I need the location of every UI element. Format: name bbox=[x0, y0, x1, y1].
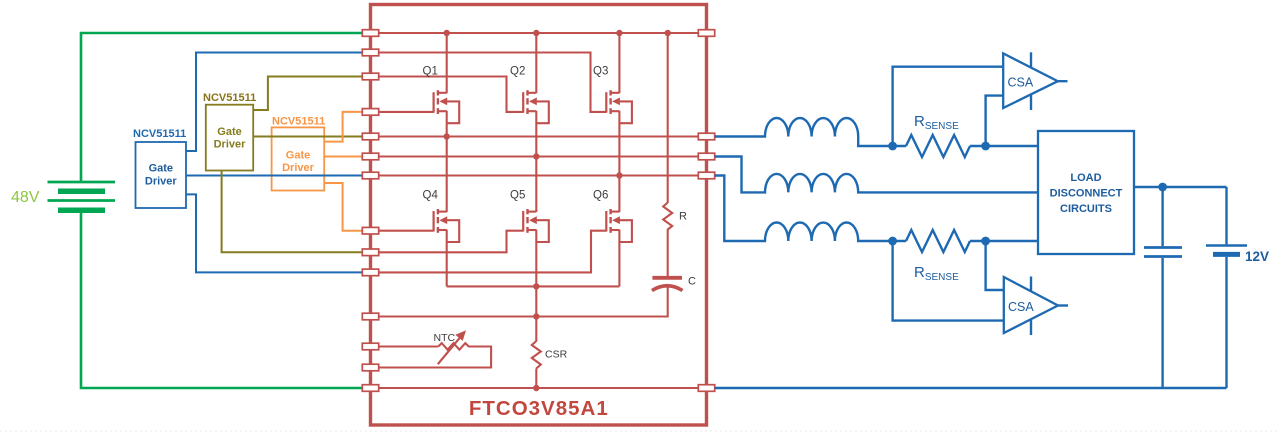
wire: internal 48V top bus bbox=[371, 32, 706, 34]
pin 5 (left) bbox=[362, 133, 378, 140]
wire: phase A rail bbox=[371, 135, 706, 137]
wire: CSA1 input - bbox=[986, 96, 1004, 146]
wire: U3 output to pin 8 (Q4 low gate) bbox=[324, 183, 362, 231]
wire: source-sense rail to snubber node (pin 11) bbox=[371, 286, 668, 317]
junction phase A node bbox=[444, 133, 450, 139]
junction output cap bbox=[1158, 183, 1167, 192]
wire: CSR to ground bus bbox=[535, 369, 537, 389]
wire: output node to capacitor C2 bbox=[1161, 187, 1163, 246]
svg-text:Q2: Q2 bbox=[510, 66, 525, 78]
wire: Q5 source to common source bus bbox=[535, 230, 537, 287]
wire+inductor L3 phase C bbox=[715, 176, 906, 242]
svg-text:LOAD: LOAD bbox=[1070, 172, 1101, 184]
load disconnect circuits box bbox=[1038, 131, 1134, 254]
pin 4 (left) bbox=[362, 109, 378, 116]
wire: R to C bbox=[667, 229, 669, 276]
module FTCO3V85A1 outline bbox=[371, 5, 707, 426]
svg-text:NCV51511: NCV51511 bbox=[203, 92, 256, 104]
wire: gate feed pin9 to Q5 bbox=[371, 231, 523, 253]
svg-text:Driver: Driver bbox=[214, 139, 247, 151]
gate driver U2 NCV51511 (olive) bbox=[203, 92, 256, 171]
wire: gate feed pin2 to Q3 bbox=[371, 53, 606, 112]
svg-text:C: C bbox=[688, 276, 696, 288]
svg-text:Gate: Gate bbox=[217, 126, 241, 138]
pin 7 (left) bbox=[362, 172, 378, 179]
pin 16 phase A (right) bbox=[698, 133, 714, 140]
battery B1 48V bbox=[48, 182, 116, 210]
pin 3 (left) bbox=[362, 73, 378, 80]
junction source bus bbox=[533, 283, 539, 289]
svg-text:NCV51511: NCV51511 bbox=[272, 116, 325, 128]
svg-text:CSA: CSA bbox=[1008, 300, 1034, 314]
wire: 48V bus to resistor R bbox=[667, 33, 669, 203]
svg-text:48V: 48V bbox=[11, 189, 40, 206]
wire+inductor L1 phase A bbox=[715, 118, 906, 146]
wire: Q6 source to common source bus bbox=[618, 230, 620, 287]
svg-text:DISCONNECT: DISCONNECT bbox=[1050, 188, 1123, 200]
junction CSR ground bbox=[533, 385, 539, 391]
wire: Q4 source to common source bus bbox=[446, 230, 448, 287]
wire: gate feed pin3 to Q2 bbox=[371, 77, 523, 112]
svg-text:Q3: Q3 bbox=[593, 66, 608, 78]
wire: U3 output to pin 6 (phase B return) bbox=[324, 156, 362, 158]
wire: Q1 drain to 48V bus bbox=[446, 33, 448, 93]
thermistor NTC arrow bbox=[438, 337, 461, 365]
wire: 12V battery top bbox=[1225, 187, 1227, 244]
svg-text:FTCO3V85A1: FTCO3V85A1 bbox=[469, 397, 609, 420]
transistor Q2 bbox=[523, 90, 549, 123]
svg-text:CSA: CSA bbox=[1008, 76, 1034, 90]
wire: load disconnect output to 12V bbox=[1134, 186, 1227, 188]
wire: 48V battery positive rail to module pin 1 bbox=[81, 33, 362, 182]
wire: 12V battery to ground bus bbox=[1225, 257, 1227, 388]
pin 19 ground (right) bbox=[698, 385, 714, 392]
wire: gate feed pin10 to Q6 bbox=[371, 231, 606, 273]
battery B2 12V bbox=[1206, 246, 1247, 255]
svg-text:Q6: Q6 bbox=[593, 190, 608, 202]
wire: U1 output to pin 2 (Q3 high gate) bbox=[186, 53, 362, 152]
thermistor NTC wiring bbox=[379, 345, 439, 347]
svg-text:Gate: Gate bbox=[286, 150, 310, 162]
capacitor C bbox=[652, 278, 683, 291]
pin 11 (left) bbox=[362, 313, 378, 320]
gate driver U3 NCV51511 (orange) bbox=[272, 116, 326, 191]
pin 17 phase B (right) bbox=[698, 153, 714, 160]
wire: RSENSE top to load disconnect bbox=[970, 145, 1038, 147]
wire: U2 output to pin 5 (phase A return) bbox=[253, 136, 362, 138]
resistor R bbox=[663, 203, 672, 230]
op-amp CSA2 bbox=[1004, 277, 1068, 336]
wire: Q5 drain to phase rail bbox=[535, 157, 537, 213]
transistor Q4 bbox=[434, 209, 460, 242]
pin 13 (left) bbox=[362, 364, 378, 371]
svg-text:Driver: Driver bbox=[145, 176, 178, 188]
wire: 48V battery negative rail to module bottom pin bbox=[81, 210, 362, 388]
svg-text:Gate: Gate bbox=[149, 163, 173, 175]
pin 1 (left) bbox=[362, 30, 378, 37]
wire: gate feed pin4 to Q1 bbox=[371, 111, 434, 113]
pin 8 (left) bbox=[362, 227, 378, 234]
pin 2 (left) bbox=[362, 49, 378, 56]
junction Q3 drain bbox=[616, 30, 622, 36]
resistor RSENSE (top) bbox=[906, 135, 970, 157]
wire: U1 output to pin 7 (phase C return) bbox=[186, 175, 362, 177]
junction sense rail bbox=[533, 313, 539, 319]
svg-text:Q4: Q4 bbox=[423, 190, 439, 202]
junction Q1 drain bbox=[444, 30, 450, 36]
svg-text:Driver: Driver bbox=[282, 162, 315, 174]
wire: phase C rail bbox=[371, 174, 706, 176]
transistor Q3 bbox=[606, 90, 632, 123]
wire: bottom ground bus bbox=[371, 387, 706, 389]
resistor RSENSE (bottom) bbox=[906, 230, 970, 252]
wire: Q6 drain to phase rail bbox=[618, 176, 620, 213]
svg-text:CIRCUITS: CIRCUITS bbox=[1060, 203, 1112, 215]
wire: RSENSE bottom to load disconnect bbox=[970, 240, 1038, 242]
wire: CSA1 input + bbox=[893, 67, 1004, 146]
transistor Q1 bbox=[434, 90, 460, 123]
transistor Q5 bbox=[523, 209, 549, 242]
wire: phase B rail bbox=[371, 155, 706, 157]
junction R top bbox=[665, 30, 671, 36]
pin 15 (right) bbox=[698, 30, 714, 37]
junction RSENSE2 left bbox=[888, 237, 897, 246]
resistor CSR bbox=[532, 341, 541, 369]
wire: Q4 drain to phase rail bbox=[446, 137, 448, 213]
wire+inductor L2 phase B bbox=[715, 157, 1038, 193]
junction phase B node bbox=[533, 153, 539, 159]
wire: CSA2 input - bbox=[893, 241, 1004, 321]
wire: Q3 source to phase rail bbox=[618, 111, 620, 176]
svg-text:NTC: NTC bbox=[434, 332, 456, 344]
junction RSENSE1 left bbox=[888, 142, 897, 151]
wire: Q1 source to phase rail bbox=[446, 111, 448, 137]
pin 10 (left) bbox=[362, 269, 378, 276]
wire: Q2 drain to 48V bus bbox=[535, 33, 537, 93]
wire: low-side common source bus bbox=[447, 285, 620, 287]
wire: Q2 source to phase rail bbox=[535, 111, 537, 157]
junction Q2 drain bbox=[533, 30, 539, 36]
wire: source bus to CSR bbox=[535, 286, 537, 341]
svg-text:NCV51511: NCV51511 bbox=[133, 128, 186, 140]
pin 9 (left) bbox=[362, 249, 378, 256]
gate driver U1 NCV51511 (blue) bbox=[133, 128, 186, 208]
page boundary dashed line bbox=[0, 430, 1280, 432]
svg-text:Q5: Q5 bbox=[510, 190, 525, 202]
svg-text:CSR: CSR bbox=[545, 349, 568, 361]
wire: capacitor C2 to ground bus bbox=[1161, 258, 1163, 388]
junction RSENSE2 right bbox=[981, 237, 990, 246]
wire: Q3 drain to 48V bus bbox=[618, 33, 620, 93]
wire: U1 output to pin 10 (Q6 low gate) bbox=[186, 194, 362, 272]
wire: CSA2 input + bbox=[986, 241, 1004, 290]
junction phase C node bbox=[616, 172, 622, 178]
wire: U3 output to pin 4 (Q1 high gate) bbox=[324, 112, 362, 142]
wire: gate feed pin8 to Q4 bbox=[371, 230, 434, 232]
junction RSENSE1 right bbox=[981, 142, 990, 151]
transistor Q6 bbox=[606, 209, 632, 242]
wire: U2 output to pin 9 (Q5 low gate) bbox=[222, 171, 363, 253]
svg-text:R: R bbox=[679, 211, 687, 223]
pin 18 phase C (right) bbox=[698, 172, 714, 179]
svg-text:Q1: Q1 bbox=[423, 66, 438, 78]
svg-text:12V: 12V bbox=[1245, 249, 1269, 264]
wire: U2 output to pin 3 (Q2 high gate) bbox=[253, 77, 362, 111]
pin 14 (left) bbox=[362, 385, 378, 392]
thermistor NTC zigzag bbox=[379, 343, 491, 367]
op-amp CSA1 bbox=[1003, 52, 1067, 110]
wire: blue ground return bus bbox=[715, 387, 1227, 389]
pin 6 (left) bbox=[362, 153, 378, 160]
capacitor C2 bbox=[1144, 248, 1182, 257]
pin 12 (left) bbox=[362, 343, 378, 350]
